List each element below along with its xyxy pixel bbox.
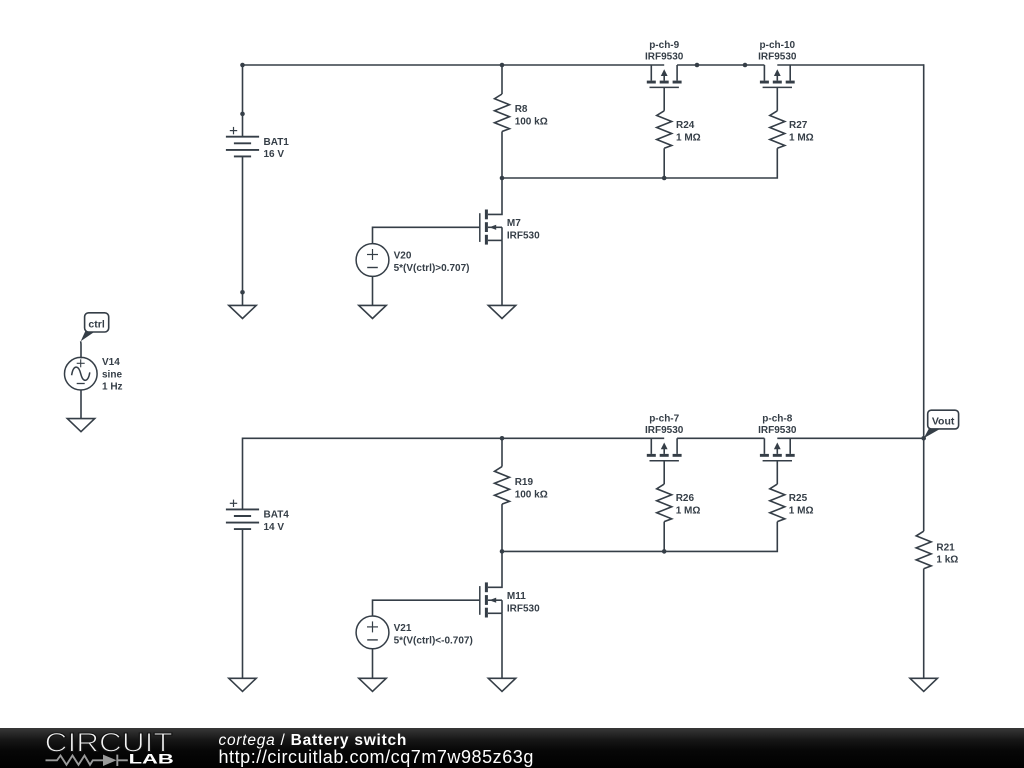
svg-text:p-ch-8: p-ch-8 bbox=[762, 413, 792, 424]
svg-text:R25: R25 bbox=[789, 493, 808, 504]
ground (R21) bbox=[910, 678, 937, 691]
svg-text:R8: R8 bbox=[515, 104, 528, 115]
svg-text:1 MΩ: 1 MΩ bbox=[676, 506, 701, 517]
wire V21 to M11 gate bbox=[373, 600, 480, 616]
wire R25 bottom to gate-node bbox=[502, 522, 777, 552]
svg-text:14 V: 14 V bbox=[264, 522, 285, 533]
svg-text:V20: V20 bbox=[394, 251, 412, 262]
svg-text:ctrl: ctrl bbox=[88, 319, 104, 331]
ground (BAT4) bbox=[229, 678, 256, 691]
battery BAT4 bbox=[226, 500, 259, 529]
svg-text:LAB: LAB bbox=[129, 751, 174, 767]
node dot gate-node at R8 bbox=[500, 176, 505, 181]
svg-text:1 MΩ: 1 MΩ bbox=[789, 132, 814, 143]
resistor R27 bbox=[770, 111, 785, 149]
svg-text:p-ch-10: p-ch-10 bbox=[760, 40, 796, 51]
ground (V14) bbox=[67, 419, 94, 432]
source V20 bbox=[356, 244, 389, 277]
node flag ctrl bbox=[81, 313, 109, 342]
resistor R26 bbox=[657, 484, 672, 521]
svg-text:V14: V14 bbox=[102, 357, 120, 368]
wire p-ch-10 gate to R27 bbox=[776, 87, 778, 110]
node dot Vout bbox=[921, 436, 926, 441]
footer bar bbox=[0, 728, 1024, 768]
svg-text:5*(V(ctrl)>0.707): 5*(V(ctrl)>0.707) bbox=[394, 263, 470, 274]
resistor R19 bbox=[495, 467, 510, 505]
ground (BAT1) bbox=[229, 305, 256, 318]
svg-text:R27: R27 bbox=[789, 120, 808, 131]
svg-text:BAT4: BAT4 bbox=[264, 510, 290, 521]
source V14 (sine) bbox=[65, 357, 98, 390]
wire M7 drain bbox=[488, 178, 502, 214]
node dot BAT1 top terminal bbox=[240, 112, 245, 117]
resistor R24 bbox=[657, 111, 672, 149]
ground (V20) bbox=[359, 305, 386, 318]
wire p-ch-9 gate to R24 bbox=[663, 87, 665, 110]
transistor p-ch-7 (PMOS IRF9530) bbox=[647, 438, 682, 460]
wire R21 bottom lead bbox=[923, 569, 925, 679]
wire bottom rail segment 2 (p-ch-7 drain to p-ch-8 drain) bbox=[677, 437, 764, 439]
node dot mid rail 2 bbox=[743, 63, 748, 68]
wire top rail segment 1 (BAT1 to p-ch-9 body) bbox=[243, 64, 665, 66]
wire Vout to R21 bbox=[923, 438, 925, 531]
wire p-ch-8 gate to R25 bbox=[776, 461, 778, 484]
node dot R8 top bbox=[500, 63, 505, 68]
svg-text:IRF9530: IRF9530 bbox=[758, 52, 797, 63]
svg-text:16 V: 16 V bbox=[264, 149, 285, 160]
wire V14 bottom bbox=[80, 390, 82, 419]
node flag Vout bbox=[924, 410, 959, 438]
wire R24 bottom lead bbox=[663, 148, 665, 178]
node dot gate-node at R19 bbox=[500, 549, 505, 554]
svg-text:M11: M11 bbox=[507, 591, 526, 602]
node dot gate-node at R24 bbox=[662, 176, 667, 181]
wire p-ch-7 gate to R26 bbox=[663, 461, 665, 484]
svg-text:IRF9530: IRF9530 bbox=[645, 425, 684, 436]
ground (V21) bbox=[359, 678, 386, 691]
svg-text:V21: V21 bbox=[394, 623, 412, 634]
transistor M11 (NMOS IRF530) bbox=[480, 582, 502, 617]
svg-text:1 MΩ: 1 MΩ bbox=[789, 506, 814, 517]
wire BAT4 bottom bbox=[242, 529, 244, 678]
svg-text:Vout: Vout bbox=[932, 416, 955, 428]
node dot R19 top bbox=[500, 436, 505, 441]
battery BAT1 bbox=[226, 127, 259, 156]
transistor p-ch-8 (PMOS IRF9530) bbox=[760, 438, 795, 460]
node dot BAT1 ground bbox=[240, 290, 245, 295]
wire M11 drain bbox=[488, 551, 502, 587]
wire bottom rail segment 3 (p-ch-8 body to Vout node) bbox=[777, 437, 923, 439]
wire M7 source to ground bbox=[501, 240, 503, 305]
transistor M7 (NMOS IRF530) bbox=[480, 210, 502, 245]
logo resistor-diode squiggle bbox=[46, 755, 128, 766]
svg-text:1 kΩ: 1 kΩ bbox=[936, 555, 958, 566]
wire M11 source to ground bbox=[501, 613, 503, 678]
wire R19 bottom lead bbox=[501, 504, 503, 551]
wire R8 bottom lead bbox=[501, 132, 503, 179]
svg-text:p-ch-7: p-ch-7 bbox=[649, 413, 679, 424]
wire V20 to M7 gate bbox=[373, 227, 480, 244]
svg-text:5*(V(ctrl)<-0.707): 5*(V(ctrl)<-0.707) bbox=[394, 635, 473, 646]
ground (M7) bbox=[488, 305, 515, 318]
wire R27 bottom to gate-node bbox=[502, 148, 777, 178]
ground (M11) bbox=[488, 678, 515, 691]
svg-text:sine: sine bbox=[102, 369, 122, 380]
wire R26 bottom lead bbox=[663, 522, 665, 552]
resistor R8 bbox=[495, 94, 510, 132]
resistor R25 bbox=[770, 484, 785, 521]
svg-text:IRF9530: IRF9530 bbox=[645, 52, 684, 63]
wire V21 bottom bbox=[372, 649, 374, 679]
svg-text:M7: M7 bbox=[507, 218, 521, 229]
svg-text:IRF530: IRF530 bbox=[507, 231, 540, 242]
svg-text:R21: R21 bbox=[936, 543, 955, 554]
svg-text:http://circuitlab.com/cq7m7w98: http://circuitlab.com/cq7m7w985z63g bbox=[219, 747, 534, 767]
svg-text:1 MΩ: 1 MΩ bbox=[676, 132, 701, 143]
svg-text:R19: R19 bbox=[515, 477, 534, 488]
transistor p-ch-9 (PMOS IRF9530) bbox=[647, 65, 682, 87]
svg-text:1 Hz: 1 Hz bbox=[102, 382, 123, 393]
svg-text:100 kΩ: 100 kΩ bbox=[515, 489, 548, 500]
svg-text:IRF530: IRF530 bbox=[507, 603, 540, 614]
wire BAT1 bottom bbox=[242, 156, 244, 305]
wire BAT1 top bbox=[242, 65, 244, 137]
wire R19 top lead bbox=[501, 438, 503, 466]
node dot top-left corner bbox=[240, 63, 245, 68]
wire right vertical (top rail to Vout node) bbox=[923, 64, 925, 438]
source V21 bbox=[356, 616, 389, 649]
svg-text:R26: R26 bbox=[676, 493, 695, 504]
wire bottom rail segment 1 (BAT4 to p-ch-7 body) bbox=[243, 437, 665, 439]
svg-text:BAT1: BAT1 bbox=[264, 137, 290, 148]
svg-text:p-ch-9: p-ch-9 bbox=[649, 40, 679, 51]
svg-text:IRF9530: IRF9530 bbox=[758, 425, 797, 436]
svg-text:R24: R24 bbox=[676, 120, 695, 131]
transistor p-ch-10 (PMOS IRF9530) bbox=[760, 65, 795, 87]
wire R8 top lead bbox=[501, 65, 503, 94]
wire ctrl to V14 bbox=[80, 341, 82, 358]
wire BAT4 top bbox=[242, 438, 244, 510]
wire V20 bottom bbox=[372, 276, 374, 305]
wire top rail segment 2 (p-ch-9 drain to p-ch-10 drain) bbox=[677, 64, 764, 66]
svg-text:100 kΩ: 100 kΩ bbox=[515, 117, 548, 128]
resistor R21 bbox=[916, 531, 931, 569]
wire top rail segment 3 (p-ch-10 body to right corner) bbox=[777, 64, 923, 66]
node dot mid rail 1 bbox=[695, 63, 700, 68]
node dot gate-node at R26 bbox=[662, 549, 667, 554]
